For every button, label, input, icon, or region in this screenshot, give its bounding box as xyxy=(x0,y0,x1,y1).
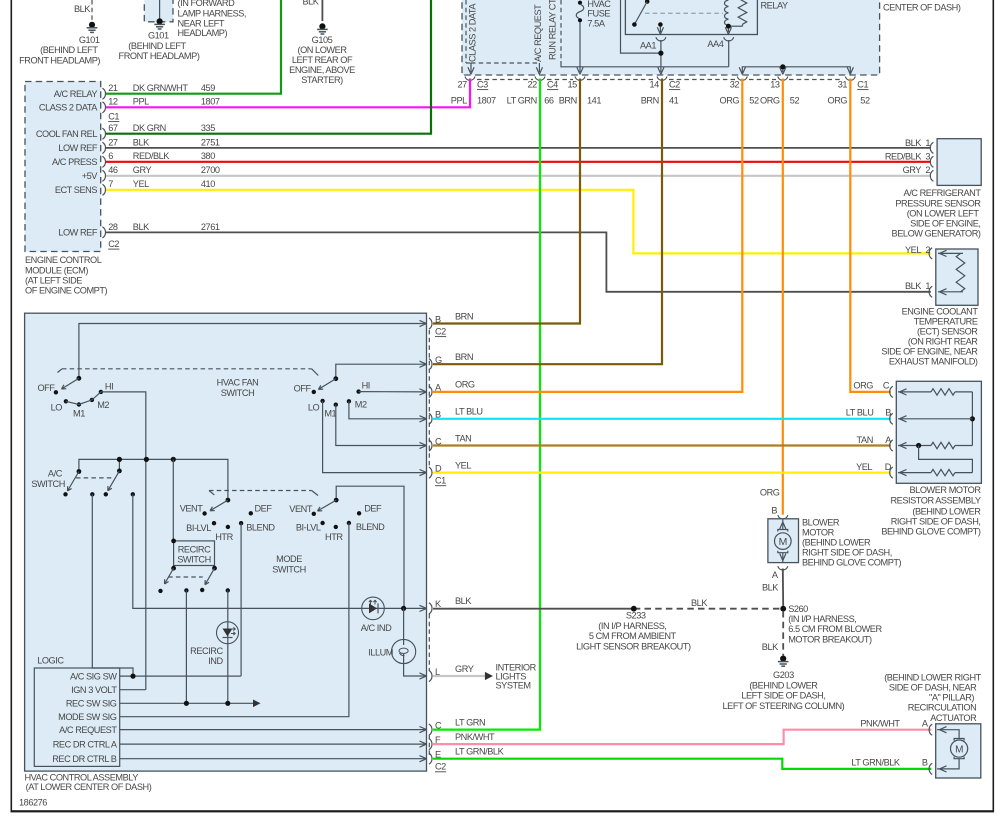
svg-text:(AT LEFT SIDE: (AT LEFT SIDE xyxy=(25,275,82,285)
HVAC pin B (BRN) xyxy=(420,311,474,336)
svg-text:M1: M1 xyxy=(324,409,336,419)
wire ORG 52 (pin 32 riser to HVAC pin A) xyxy=(433,79,742,392)
actuator caption xyxy=(884,672,981,723)
svg-text:21: 21 xyxy=(108,83,118,93)
fuse block pin 15 (BRN 141) xyxy=(559,77,602,106)
svg-text:(BEHIND LOWER: (BEHIND LOWER xyxy=(912,506,981,516)
svg-text:RECIRC: RECIRC xyxy=(178,545,211,555)
svg-text:LOW REF: LOW REF xyxy=(58,143,98,153)
mode switch mechanical link (dashed) xyxy=(209,491,318,496)
connector AA4 xyxy=(707,37,733,67)
wire mode2 BLEND to MODE SW SIG xyxy=(120,523,349,717)
svg-text:C1: C1 xyxy=(108,112,119,122)
svg-text:GRY: GRY xyxy=(133,165,152,175)
svg-text:ORG: ORG xyxy=(760,95,780,105)
svg-text:6.5 CM FROM BLOWER: 6.5 CM FROM BLOWER xyxy=(788,624,882,634)
wire feed to AA1 junction xyxy=(621,0,664,56)
svg-text:BI-LVL: BI-LVL xyxy=(296,523,321,533)
wire PNK/WHT (pin F to actuator A) xyxy=(433,718,931,744)
HVAC pin B (LT BLU) xyxy=(420,407,483,425)
wire GRY 2700 (pin 46 to pressure sensor) xyxy=(106,175,931,177)
svg-text:B: B xyxy=(885,407,891,417)
fuse block pin 13 (ORG 52) xyxy=(760,77,799,106)
svg-text:BLK: BLK xyxy=(302,0,319,7)
connector AA1 xyxy=(640,37,666,74)
ECM pin 67 (COOL FAN REL) xyxy=(36,123,215,139)
svg-text:66: 66 xyxy=(544,95,554,105)
splice S260 xyxy=(780,604,882,645)
svg-text:IGN 3 VOLT: IGN 3 VOLT xyxy=(71,685,117,695)
HVAC connector dashes xyxy=(428,330,430,755)
svg-text:335: 335 xyxy=(201,123,215,133)
svg-text:REC DR CTRL B: REC DR CTRL B xyxy=(52,754,117,764)
node A/C REQUEST (dashed net) xyxy=(471,4,543,74)
svg-text:A/C SIG SW: A/C SIG SW xyxy=(70,671,117,681)
svg-text:BLOWER MOTOR: BLOWER MOTOR xyxy=(910,485,982,495)
wire A/C REQUEST row to pin C xyxy=(120,729,427,731)
svg-text:1: 1 xyxy=(925,281,930,291)
wire GRY to interior lights system xyxy=(433,662,537,690)
svg-text:C1: C1 xyxy=(435,476,446,486)
svg-text:SIDE OF ENGINE, NEAR: SIDE OF ENGINE, NEAR xyxy=(881,346,978,356)
svg-text:1807: 1807 xyxy=(477,95,496,105)
node RUN RELAY CTRL (dashed net) xyxy=(548,0,562,61)
wire RED/BLK 380 (pin 6 to pressure sensor) xyxy=(106,161,931,163)
svg-text:SWITCH: SWITCH xyxy=(31,479,65,489)
svg-text:HVAC: HVAC xyxy=(587,0,611,9)
svg-text:ORG: ORG xyxy=(853,381,873,391)
svg-text:REC SW SIG: REC SW SIG xyxy=(66,699,117,709)
HVAC fan switch 2 xyxy=(294,376,370,418)
mode switch 2 xyxy=(289,498,385,542)
ground G101 (in forward lamp harness) xyxy=(119,0,246,61)
svg-text:ACTUATOR: ACTUATOR xyxy=(930,713,977,723)
svg-text:13: 13 xyxy=(770,80,780,90)
wire fan2 HI to pin A xyxy=(359,391,427,393)
svg-text:YEL: YEL xyxy=(455,460,471,470)
ECM pin 46 (+5V) xyxy=(82,165,220,181)
svg-text:RED/BLK: RED/BLK xyxy=(885,151,922,161)
svg-text:BLOWER: BLOWER xyxy=(802,517,840,527)
svg-text:ENGINE CONTROL: ENGINE CONTROL xyxy=(25,255,102,265)
ECM connector C2 label xyxy=(108,239,119,249)
svg-text:FUSE: FUSE xyxy=(587,9,610,19)
svg-text:HVAC FAN: HVAC FAN xyxy=(217,377,259,387)
svg-text:G101: G101 xyxy=(148,30,169,40)
wire YEL 410 (pin 7 to ECT sensor) xyxy=(106,190,931,254)
svg-text:B: B xyxy=(435,314,441,324)
HVAC pin K (BLK) xyxy=(420,596,473,614)
svg-text:HVAC CONTROL ASSEMBLY: HVAC CONTROL ASSEMBLY xyxy=(25,772,139,782)
svg-text:67: 67 xyxy=(108,123,118,133)
wire resistor rail xyxy=(970,392,975,446)
svg-text:+5V: +5V xyxy=(82,171,99,181)
svg-text:HI: HI xyxy=(105,382,113,392)
svg-text:52: 52 xyxy=(749,95,759,105)
svg-text:BRN: BRN xyxy=(455,352,473,362)
wire pin B feed to fan switch 1 xyxy=(79,324,427,377)
svg-text:C2: C2 xyxy=(435,327,446,337)
recirc switch poles xyxy=(158,566,230,593)
relay coil xyxy=(725,0,747,34)
splice S233 xyxy=(576,598,708,651)
svg-text:ECT SENS: ECT SENS xyxy=(55,185,98,195)
svg-text:BLK: BLK xyxy=(905,281,922,291)
svg-text:3: 3 xyxy=(925,151,930,161)
svg-text:LEFT OF STEERING COLUMN): LEFT OF STEERING COLUMN) xyxy=(723,701,845,711)
svg-text:BRN: BRN xyxy=(455,311,473,321)
fuse block pin 27 (PPL 1807) xyxy=(451,77,496,106)
svg-text:46: 46 xyxy=(108,165,118,175)
svg-text:459: 459 xyxy=(201,83,215,93)
fuse HVAC FUSE 7.5A xyxy=(576,0,611,74)
svg-text:S260: S260 xyxy=(788,604,808,614)
svg-text:M2: M2 xyxy=(97,400,109,410)
svg-text:OFF: OFF xyxy=(294,384,312,394)
svg-text:AA4: AA4 xyxy=(707,39,723,49)
svg-text:RECIRCULATION: RECIRCULATION xyxy=(908,703,977,713)
svg-text:M: M xyxy=(779,536,787,548)
svg-text:C: C xyxy=(883,381,890,391)
wire ORG 52 (pin 13 riser to blower motor) xyxy=(782,79,784,515)
svg-text:LO: LO xyxy=(308,403,320,413)
mode switch 1 xyxy=(180,498,276,542)
svg-text:(ON LOWER: (ON LOWER xyxy=(297,45,347,55)
wire YEL (pin D to resistor D) xyxy=(433,472,891,474)
wire ORG feed header (pins 32/13/31) xyxy=(739,64,853,74)
svg-text:G105: G105 xyxy=(312,35,333,45)
svg-text:LT BLU: LT BLU xyxy=(455,407,483,417)
svg-text:(BEHIND LEFT: (BEHIND LEFT xyxy=(40,45,98,55)
wire fan switch 1 HI to logic riser xyxy=(101,392,146,690)
svg-text:CENTER OF DASH): CENTER OF DASH) xyxy=(883,2,961,12)
svg-text:M: M xyxy=(955,744,963,755)
svg-text:BLK: BLK xyxy=(455,596,472,606)
A/C refrigerant pressure sensor xyxy=(885,138,982,238)
wire LT GRN 66 (C4 pin 22 riser to HVAC pin C) xyxy=(433,79,540,730)
svg-text:A/C REFRIGERANT: A/C REFRIGERANT xyxy=(904,188,982,198)
svg-text:HTR: HTR xyxy=(325,532,343,542)
lamp ILLUM xyxy=(368,608,416,663)
svg-text:LEFT SIDE OF DASH,: LEFT SIDE OF DASH, xyxy=(741,691,825,701)
svg-text:C1: C1 xyxy=(857,80,868,90)
wire pin G feed to fan switch 2 xyxy=(336,364,427,376)
svg-text:(BEHIND LOWER RIGHT: (BEHIND LOWER RIGHT xyxy=(884,672,981,682)
wire BRN 141 (pin 15 riser to HVAC pin B) xyxy=(433,79,580,324)
recirculation actuator xyxy=(929,724,981,778)
wire recirc pole2 through RECIRC IND xyxy=(227,590,229,703)
svg-text:141: 141 xyxy=(587,95,601,105)
svg-text:BLK: BLK xyxy=(905,138,922,148)
wire DK GRN 335 (pin 67) xyxy=(106,0,431,134)
svg-text:186276: 186276 xyxy=(19,798,47,808)
svg-text:LAMP HARNESS,: LAMP HARNESS, xyxy=(178,9,247,19)
wire IGN 3 VOLT row xyxy=(120,689,146,691)
svg-text:5 CM FROM AMBIENT: 5 CM FROM AMBIENT xyxy=(589,631,677,641)
svg-text:G101: G101 xyxy=(79,35,100,45)
svg-text:2: 2 xyxy=(925,165,930,175)
wire BLK 2761 (pin 28 to ECT sensor) xyxy=(106,232,931,291)
svg-text:7: 7 xyxy=(108,179,113,189)
HVAC pin E (LT GRN/BLK) xyxy=(420,747,505,772)
wire LT BLU (pin B to resistor B) xyxy=(433,418,891,420)
svg-text:2700: 2700 xyxy=(201,165,220,175)
wire fan2 LO to pin D xyxy=(323,401,427,473)
svg-text:SYSTEM: SYSTEM xyxy=(496,681,531,691)
svg-text:MODE: MODE xyxy=(276,554,302,564)
svg-text:RUN RELAY CTRL: RUN RELAY CTRL xyxy=(548,0,558,60)
svg-text:(ECT) SENSOR: (ECT) SENSOR xyxy=(917,326,978,336)
svg-text:BEHIND GLOVE COMPT): BEHIND GLOVE COMPT) xyxy=(802,558,902,568)
relay (A/C compressor relay) xyxy=(625,0,788,35)
svg-text:OF ENGINE COMPT): OF ENGINE COMPT) xyxy=(25,286,108,296)
svg-text:LO: LO xyxy=(51,403,63,413)
svg-text:VENT: VENT xyxy=(180,504,204,514)
ECM pin 6 (A/C PRESS) xyxy=(52,151,215,167)
svg-text:ENGINE, ABOVE: ENGINE, ABOVE xyxy=(289,65,355,75)
HVAC pin D (YEL) xyxy=(420,460,472,485)
fan switch mechanical link (dashed) xyxy=(58,369,319,376)
ECM pin 12 (CLASS 2 DATA) xyxy=(39,97,220,113)
blower motor caption xyxy=(802,517,902,567)
svg-text:2751: 2751 xyxy=(201,137,220,147)
svg-text:"A" PILLAR): "A" PILLAR) xyxy=(929,693,974,703)
svg-text:15: 15 xyxy=(567,80,577,90)
ground G203 xyxy=(723,656,845,711)
wire mode switch 2 pivot feed xyxy=(336,486,404,608)
svg-text:SIDE OF DASH, NEAR: SIDE OF DASH, NEAR xyxy=(889,682,977,692)
wire row A tap to row D xyxy=(919,446,973,473)
wire fan2 M1 to pin C xyxy=(336,405,427,446)
svg-text:DEF: DEF xyxy=(364,503,382,513)
svg-text:YEL: YEL xyxy=(133,179,149,189)
svg-text:REC DR CTRL A: REC DR CTRL A xyxy=(53,739,118,749)
svg-text:CLASS 2 DATA: CLASS 2 DATA xyxy=(39,103,98,113)
svg-text:PRESSURE SENSOR: PRESSURE SENSOR xyxy=(895,198,981,208)
svg-text:B: B xyxy=(922,758,928,768)
wire ORG 52 (pin 31 riser to resistor pin C) xyxy=(850,79,891,392)
svg-text:28: 28 xyxy=(108,222,118,232)
svg-text:(IN FORWARD: (IN FORWARD xyxy=(178,0,236,8)
svg-text:TAN: TAN xyxy=(857,435,873,445)
fuse block pin 31 (ORG 52) xyxy=(828,77,870,106)
resistor R2 (row A) xyxy=(898,442,972,448)
svg-text:MOTOR BREAKOUT): MOTOR BREAKOUT) xyxy=(788,635,872,645)
wire recirc switch feed xyxy=(172,459,174,541)
resistor R1 (row C) xyxy=(898,389,972,395)
svg-text:PNK/WHT: PNK/WHT xyxy=(455,732,495,742)
HVAC pin C (LT GRN) xyxy=(420,717,486,735)
LOGIC block xyxy=(34,656,119,767)
wire ignition bus xyxy=(79,457,228,498)
svg-text:32: 32 xyxy=(730,80,740,90)
svg-text:1: 1 xyxy=(925,138,930,148)
svg-text:GRY: GRY xyxy=(455,664,474,674)
fuse block pin 14 (BRN 41) xyxy=(641,77,680,106)
svg-text:TAN: TAN xyxy=(455,433,471,443)
svg-text:LT GRN/BLK: LT GRN/BLK xyxy=(851,758,901,768)
svg-text:PPL: PPL xyxy=(133,97,149,107)
ECM pin 28 (LOW REF) xyxy=(58,222,220,238)
svg-text:RIGHT SIDE OF DASH,: RIGHT SIDE OF DASH, xyxy=(802,548,892,558)
fuse block pin 32 (ORG 52) xyxy=(720,77,759,106)
LED A/C IND xyxy=(361,597,392,633)
svg-text:MODULE (ECM): MODULE (ECM) xyxy=(25,265,88,275)
svg-text:C: C xyxy=(435,720,442,730)
svg-text:BLK: BLK xyxy=(691,598,708,608)
svg-text:IND: IND xyxy=(208,656,223,666)
svg-text:BLK: BLK xyxy=(762,583,779,593)
svg-text:LT GRN: LT GRN xyxy=(507,95,537,105)
wire BLK 2751 (pin 27 to pressure sensor) xyxy=(106,147,931,149)
svg-text:VENT: VENT xyxy=(289,504,313,514)
resistor R3 (row D) xyxy=(898,469,972,475)
LED RECIRC IND xyxy=(190,622,238,666)
svg-text:DK GRN: DK GRN xyxy=(133,123,166,133)
relay mechanical link (dashed) xyxy=(645,12,723,14)
svg-text:YEL: YEL xyxy=(856,462,872,472)
svg-text:C4: C4 xyxy=(547,80,558,90)
wire mode1 BLEND to A/C SIG SW row xyxy=(240,523,242,676)
svg-text:MOTOR: MOTOR xyxy=(802,527,835,537)
svg-text:PPL: PPL xyxy=(451,95,467,105)
svg-text:SIDE OF ENGINE,: SIDE OF ENGINE, xyxy=(910,218,980,228)
fuse block connector dashes xyxy=(477,79,843,81)
A/C switch xyxy=(31,468,135,496)
svg-text:LT GRN/BLK: LT GRN/BLK xyxy=(455,747,505,757)
svg-text:ORG: ORG xyxy=(760,488,780,498)
svg-text:EXHAUST MANIFOLD): EXHAUST MANIFOLD) xyxy=(889,356,978,366)
svg-text:22: 22 xyxy=(527,80,537,90)
svg-text:BI-LVL: BI-LVL xyxy=(186,523,211,533)
svg-text:(AT LOWER CENTER OF DASH): (AT LOWER CENTER OF DASH) xyxy=(26,782,152,792)
svg-text:31: 31 xyxy=(838,80,848,90)
svg-text:FRONT HEADLAMP): FRONT HEADLAMP) xyxy=(19,56,100,66)
svg-text:LEFT REAR OF: LEFT REAR OF xyxy=(292,55,353,65)
svg-text:ILLUM: ILLUM xyxy=(368,648,393,658)
wire ILLUM to pin L xyxy=(404,664,427,676)
wire REC DR CTRL B row to pin E xyxy=(120,758,427,760)
wire AA4 to RUN RELAY CTRL xyxy=(561,61,729,67)
svg-text:DEF: DEF xyxy=(255,503,273,513)
svg-text:(BEHIND LEFT: (BEHIND LEFT xyxy=(128,41,186,51)
engine control module (ECM) box xyxy=(25,82,108,296)
wire BLK dashed (S233 to S260) xyxy=(634,608,783,610)
svg-text:C2: C2 xyxy=(435,762,446,772)
ECM pin 7 (ECT SENS) xyxy=(55,179,215,195)
svg-text:27: 27 xyxy=(108,137,118,147)
svg-text:BRN: BRN xyxy=(641,95,659,105)
svg-text:DK GRN/WHT: DK GRN/WHT xyxy=(133,83,189,93)
svg-text:52: 52 xyxy=(860,95,870,105)
svg-text:LOW REF: LOW REF xyxy=(58,228,98,238)
svg-text:NEAR LEFT: NEAR LEFT xyxy=(178,18,225,28)
svg-text:12: 12 xyxy=(108,97,118,107)
HVAC pin A (ORG) xyxy=(420,380,475,398)
wire DK GRN/WHT 459 (pin 21) xyxy=(106,0,281,94)
wire BLK dashed (S260 to G203) xyxy=(762,611,783,656)
underhood fuse block (dashed box, top cut off) xyxy=(462,0,961,75)
HVAC pin C (TAN) xyxy=(420,433,472,451)
wire A/C IND to pin K xyxy=(401,606,406,611)
wire TAN (pin C to resistor A) xyxy=(433,444,891,446)
svg-text:BRN: BRN xyxy=(559,95,577,105)
svg-text:SWITCH: SWITCH xyxy=(272,564,306,574)
svg-text:PNK/WHT: PNK/WHT xyxy=(860,718,900,728)
svg-text:RED/BLK: RED/BLK xyxy=(133,151,170,161)
label MODE SWITCH xyxy=(272,554,306,574)
svg-text:BLK: BLK xyxy=(762,642,779,652)
svg-text:A/C REQUEST: A/C REQUEST xyxy=(59,725,117,735)
svg-text:SWITCH: SWITCH xyxy=(177,555,211,565)
wire A/C switch pole1 to A/C SIG SW xyxy=(92,494,133,676)
wire row B xyxy=(898,416,972,422)
svg-text:YEL: YEL xyxy=(905,245,921,255)
svg-text:27: 27 xyxy=(457,80,467,90)
svg-text:BLEND: BLEND xyxy=(246,522,275,532)
svg-text:B: B xyxy=(771,506,777,516)
svg-text:HEADLAMP): HEADLAMP) xyxy=(178,28,228,38)
wire fan2 M2 to pin B xyxy=(349,401,427,419)
svg-text:BLK: BLK xyxy=(133,222,150,232)
svg-text:ORG: ORG xyxy=(455,380,475,390)
svg-text:A/C RELAY: A/C RELAY xyxy=(54,89,98,99)
svg-text:LT BLU: LT BLU xyxy=(846,407,874,417)
svg-text:52: 52 xyxy=(790,95,800,105)
svg-text:G: G xyxy=(435,355,442,365)
wire REC DR CTRL A row to pin F xyxy=(120,743,427,745)
blower motor xyxy=(760,488,799,593)
wire BRN 41 (pin 14 riser to HVAC pin G) xyxy=(433,79,662,365)
svg-text:M1: M1 xyxy=(73,409,85,419)
svg-text:HI: HI xyxy=(362,381,370,391)
svg-text:2: 2 xyxy=(925,245,930,255)
svg-text:(ON RIGHT REAR: (ON RIGHT REAR xyxy=(908,336,978,346)
svg-text:(IN I/P HARNESS,: (IN I/P HARNESS, xyxy=(788,614,856,624)
svg-text:M2: M2 xyxy=(355,400,367,410)
svg-text:RELAY: RELAY xyxy=(761,1,789,11)
svg-text:BELOW GENERATOR): BELOW GENERATOR) xyxy=(892,229,981,239)
wire recirc pole1 to REC SW SIG xyxy=(185,590,187,703)
svg-text:A/C REQUEST: A/C REQUEST xyxy=(533,4,543,62)
svg-text:FRONT HEADLAMP): FRONT HEADLAMP) xyxy=(119,51,200,61)
svg-text:(IN I/P HARNESS,: (IN I/P HARNESS, xyxy=(598,621,666,631)
HVAC fan switch 1 xyxy=(37,376,113,419)
svg-text:C2: C2 xyxy=(108,239,119,249)
node CLASS 2 DATA (dashed net) xyxy=(466,0,478,74)
svg-text:LOGIC: LOGIC xyxy=(37,656,64,666)
svg-text:COOL FAN REL: COOL FAN REL xyxy=(36,129,97,139)
svg-text:D: D xyxy=(885,462,892,472)
HVAC control assembly box xyxy=(25,313,427,792)
engine coolant temperature (ECT) sensor xyxy=(881,245,978,366)
svg-text:SWITCH: SWITCH xyxy=(221,388,255,398)
svg-text:ORG: ORG xyxy=(828,95,848,105)
svg-text:BLK: BLK xyxy=(133,137,150,147)
wire REC SW SIG row xyxy=(120,700,261,708)
svg-text:7.5A: 7.5A xyxy=(587,18,605,28)
RECIRC SWITCH box xyxy=(171,539,214,566)
svg-text:LT GRN: LT GRN xyxy=(455,717,485,727)
svg-text:OFF: OFF xyxy=(37,383,55,393)
svg-text:RECIRC: RECIRC xyxy=(190,646,223,656)
svg-text:CLASS 2 DATA: CLASS 2 DATA xyxy=(468,3,478,62)
svg-text:MODE SW SIG: MODE SW SIG xyxy=(58,712,117,722)
svg-text:RIGHT SIDE OF DASH,: RIGHT SIDE OF DASH, xyxy=(891,517,981,527)
wire LT GRN/BLK (pin E to actuator B) xyxy=(433,758,931,769)
svg-text:GRY: GRY xyxy=(903,165,922,175)
HVAC pin G (BRN) xyxy=(420,352,474,370)
